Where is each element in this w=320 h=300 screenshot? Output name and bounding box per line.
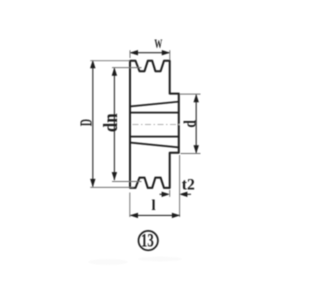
dn extension line top [112,67,142,69]
W arrow left [130,50,138,55]
W extension line right [169,50,171,60]
l dimension line [130,214,180,216]
svg-text:W: W [154,38,162,51]
taper bore line lower [131,143,179,148]
t2 extension stub [169,190,171,197]
faint scan smudge [88,259,128,265]
svg-text:d: d [181,120,200,128]
svg-text:13: 13 [141,231,154,251]
l arrow right [172,213,180,218]
W extension line left [129,50,131,58]
dn dimension line [113,68,115,180]
d arrow top [194,94,199,102]
D arrow bottom [90,179,95,187]
l arrow left [130,213,138,218]
d arrow bottom [194,145,199,153]
d extension line bottom [181,153,201,155]
dn extension line bottom [112,181,142,183]
t2 dimension right arrow [186,193,191,195]
D extension line bottom [90,186,133,188]
svg-text:dn: dn [100,113,122,132]
dn arrow top [112,67,117,75]
D arrow top [90,60,95,68]
W arrow right [162,50,170,55]
svg-text:t2: t2 [182,177,195,194]
D extension line top [90,60,130,62]
callout circle 13 [139,231,158,250]
center line [133,124,181,126]
dn arrow bottom [112,172,117,180]
d dimension line [195,94,197,153]
taper bore line upper [131,102,179,107]
W dimension line [130,52,170,54]
t2 dimension left arrow [160,193,164,195]
bore line lower [131,136,179,138]
l extension line left [129,193,131,218]
hub-face extension line (t2 / l) [179,155,181,217]
faint scan smudge [138,257,182,262]
d extension line top [180,93,201,95]
bore line upper [131,112,179,114]
D dimension line [92,61,94,187]
pulley body outline (section profile with two V-grooves) [130,61,179,188]
svg-text:l: l [152,198,156,214]
svg-text:D: D [78,119,96,126]
